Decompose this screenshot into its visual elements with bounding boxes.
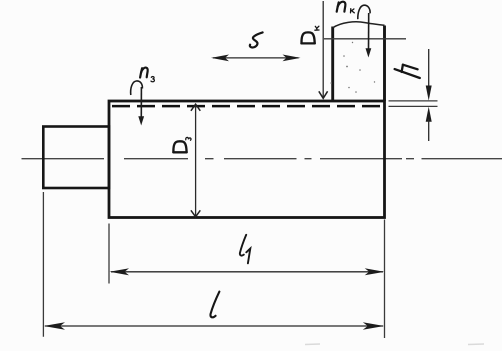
grinding wheel abrasive speckles [330, 42, 375, 93]
depth h upper dimension line [428, 49, 430, 88]
label nz (handwritten) [140, 68, 148, 78]
label nk (handwritten) [337, 2, 346, 12]
faint scan smudges [305, 343, 484, 346]
depth h lower extension line [389, 105, 438, 107]
centerline (axis, dash-dot) [22, 158, 502, 160]
grinding wheel left edge [331, 27, 334, 102]
label nz subscript z [151, 77, 154, 82]
extension line left (stub edge, for l) [42, 192, 44, 337]
label Dz (rotated, handwritten) [173, 141, 186, 152]
dimension l1 left arrowhead [110, 268, 130, 275]
dimension l1 right arrowhead [365, 268, 385, 275]
ground surface dashed line [112, 105, 384, 108]
dimension Dz line [195, 105, 197, 217]
grinding wheel axis line [324, 38, 406, 40]
depth h lower arrowhead (up) [426, 107, 432, 122]
label nk subscript k [351, 9, 355, 13]
dimension Dk line [322, 1, 324, 98]
rotation arrow nk head [366, 48, 372, 57]
extension line (body left edge, for l1) [108, 224, 110, 284]
feed S left arrowhead [211, 55, 229, 62]
label h (rotated handwritten) [395, 65, 420, 78]
workpiece main body [109, 101, 385, 218]
dimension l1 line [111, 271, 383, 273]
dimension Dz top open arrowhead [191, 104, 200, 111]
depth h lower dimension line [428, 119, 430, 141]
dimension l right arrowhead [363, 322, 384, 330]
label Dk subscript k (rotated) [315, 26, 319, 30]
dimension Dk open arrowhead [319, 91, 328, 98]
rotation arrow nz arc [131, 81, 143, 95]
dimension l line [45, 325, 383, 327]
label Dk (rotated, handwritten) [301, 32, 314, 43]
workpiece stub (left shaft end) [43, 127, 109, 189]
feed S dimension line [213, 57, 299, 59]
rotation arrow nz head [138, 116, 144, 125]
rotation arrow nk arc [358, 5, 370, 19]
label S (handwritten) [250, 32, 263, 47]
label Dz subscript z (rotated) [186, 137, 191, 140]
rotation arrow nk shaft [368, 13, 370, 50]
depth h upper arrowhead (down) [426, 86, 432, 101]
dimension Dz bottom open arrowhead [191, 210, 200, 217]
label l1 (handwritten) [240, 235, 250, 263]
grinding wheel wavy break line (top) [333, 22, 385, 28]
depth h upper extension line [389, 100, 438, 102]
rotation arrow nz shaft [140, 87, 142, 117]
grinding wheel right edge [383, 26, 386, 102]
dimension l left arrowhead [44, 322, 65, 330]
feed S right arrowhead [283, 55, 301, 62]
extension line right (body right edge) [384, 220, 386, 339]
label l (handwritten) [210, 292, 219, 318]
